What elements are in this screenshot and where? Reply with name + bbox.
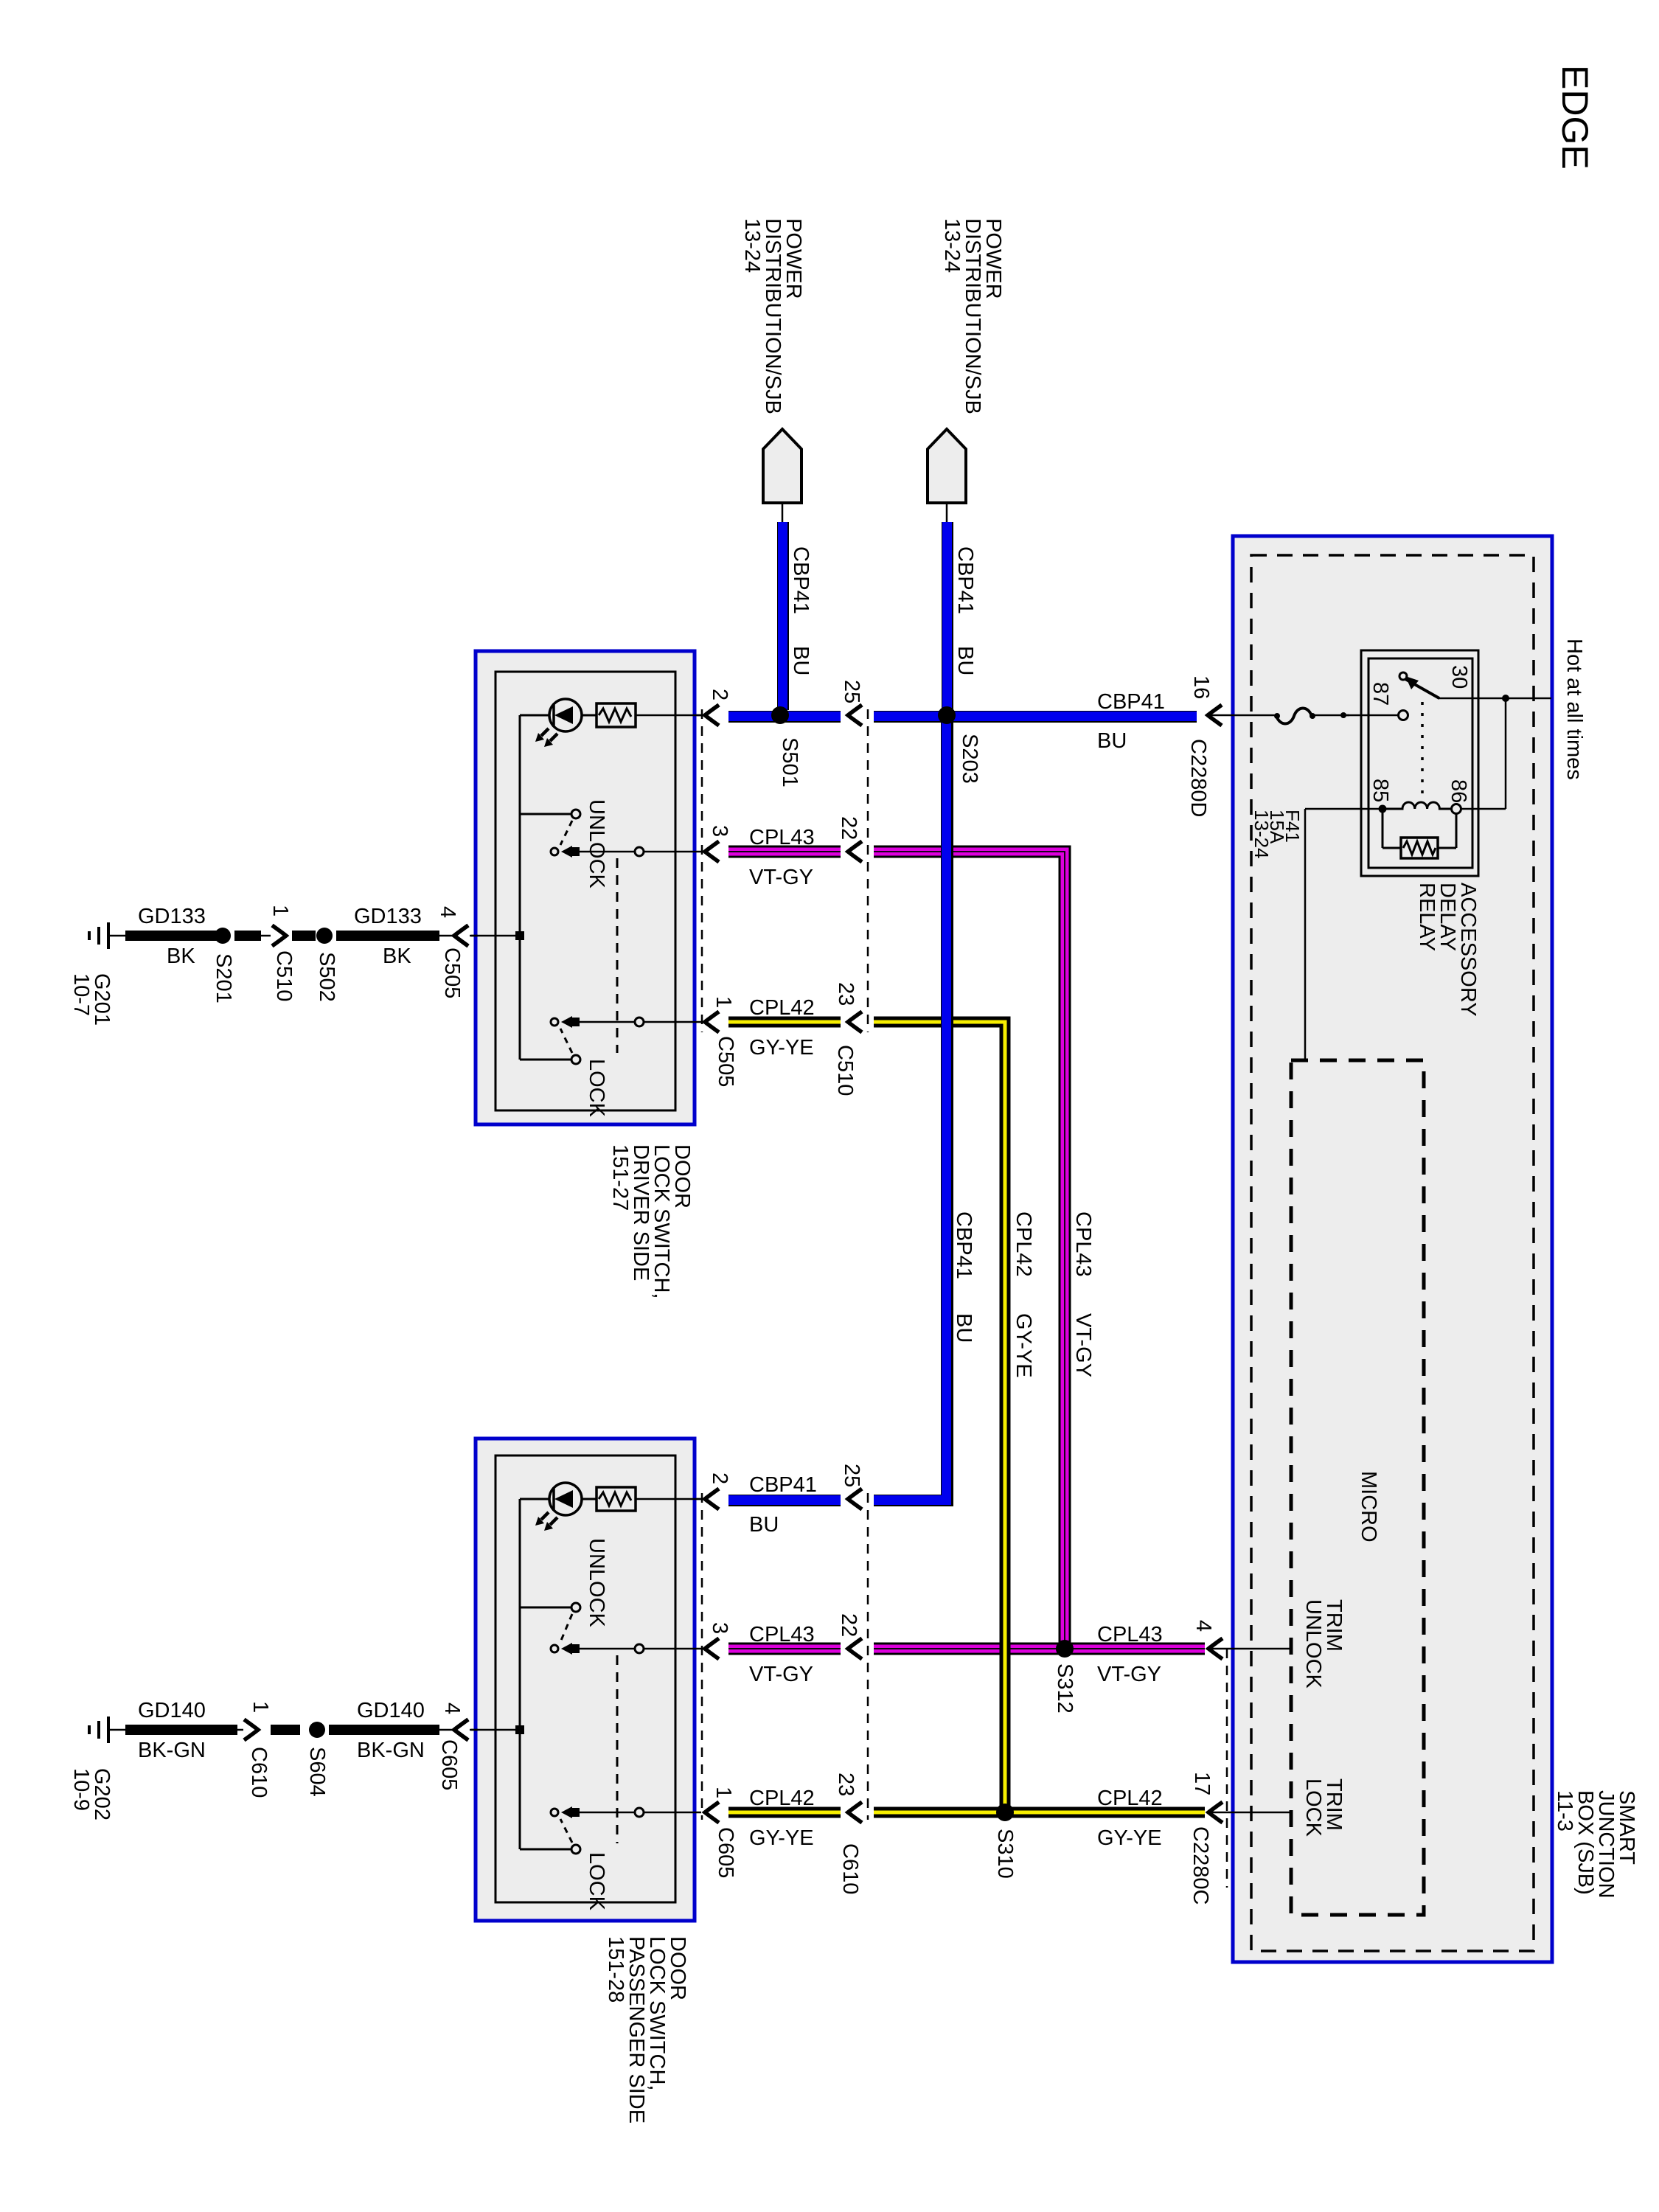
power distribution off-page connector 1 [763,429,801,503]
wire CBP41 BU passenger segment 1 [728,1495,841,1506]
svg-text:UNLOCK: UNLOCK [585,799,608,889]
MICRO dashed box [1291,1060,1424,1915]
connector 22 arrow C610 (passenger) [848,1638,862,1659]
pin 4 connector arrow C2280 [1208,1638,1222,1659]
svg-text:C605: C605 [437,1739,461,1790]
junction on fuse wire [1340,712,1346,718]
resistor of lamp (passenger) [597,1487,636,1511]
lead into driver box [470,935,478,937]
lead into passenger box [470,1729,478,1731]
svg-text:C2280D: C2280D [1186,739,1210,817]
svg-text:22: 22 [837,816,860,840]
svg-text:GD133: GD133 [138,905,206,928]
stub before S604 [271,1725,300,1735]
ground G201 symbol [107,922,110,949]
svg-text:S604: S604 [305,1747,329,1797]
resistor left leg v [1382,809,1384,848]
C505 dashed connector line [701,709,703,1032]
switch common wire (driver) [519,715,521,1060]
svg-text:BU: BU [953,646,977,675]
mechanical link dashed (passenger) [616,1655,619,1843]
svg-text:1: 1 [248,1701,272,1713]
relay pin 87 contact [1399,711,1408,720]
svg-text:87: 87 [1368,682,1392,706]
splice S312 [1056,1640,1074,1658]
C610 dashed connector line [867,1493,869,1820]
svg-text:30: 30 [1447,665,1471,689]
resistor of lamp (driver) [597,703,636,727]
svg-text:23: 23 [834,1773,858,1796]
wire CBP41 BU from connector 2 [942,522,953,710]
pin 3 connector arrow (driver) [705,841,719,862]
svg-text:CBP41: CBP41 [953,546,977,614]
svg-text:Hot at all times: Hot at all times [1562,639,1586,780]
pin 1 connector arrow (driver) [705,1012,719,1032]
svg-text:BK-GN: BK-GN [138,1739,206,1762]
splice S501 [771,706,789,724]
pin 4 wire (driver) [471,935,520,937]
lead from connector 1 [782,503,784,522]
wire CPL42 GY-YE driver segment 2 with corner [874,1022,1005,1809]
junction on pin 30 feed [1502,695,1509,702]
wire to pin 86 [1456,808,1506,810]
pin 2 connector arrow (passenger) [705,1489,719,1509]
wire relay pin 85 to MICRO, vertical [1304,809,1307,1060]
LOCK switch (passenger) [520,1848,571,1851]
connector 22 arrow C510 (driver) [848,841,862,862]
pin 4 connector arrow (driver) [454,925,468,946]
svg-text:86: 86 [1447,779,1470,803]
splice S203 [938,706,956,724]
svg-text:BU: BU [749,1513,779,1537]
resistor right leg h [1438,847,1456,849]
wire CBP41 BU long vertical [941,721,953,1506]
stub before S502 [292,931,316,941]
svg-text:23: 23 [834,982,858,1006]
svg-text:S502: S502 [315,952,338,1002]
svg-text:CPL42: CPL42 [1097,1787,1163,1810]
in-line connector 1 C610 arrow [244,1719,258,1740]
svg-text:C510: C510 [272,950,296,1001]
svg-text:4: 4 [436,906,459,918]
resistor right leg v [1455,814,1458,848]
svg-text:CPL43: CPL43 [1097,1623,1163,1646]
svg-text:CBP41: CBP41 [749,1473,817,1497]
svg-text:C505: C505 [714,1036,737,1087]
door lock switch box (passenger) outer blue frame [476,1439,695,1921]
connector 25 arrow C510 (driver) [848,705,862,726]
mechanical link dashed (driver) [616,858,619,1053]
relay coil [1379,805,1387,813]
stub pin 2 passenger [695,1498,704,1500]
wire GD140 BK-GN segment 1 [125,1725,237,1735]
svg-text:UNLOCK: UNLOCK [585,1538,608,1628]
svg-text:1: 1 [712,1787,735,1798]
relay pin 30 feed wire (Hot at all times) [1438,698,1551,700]
splice S502 [316,928,333,944]
wire CPL42 GY-YE driver segment 1 [728,1017,841,1028]
svg-text:C610: C610 [838,1843,862,1894]
stub after S201 [234,931,261,941]
ground G202 symbol [107,1717,110,1743]
switch common wire (passenger) [519,1499,521,1849]
power distribution off-page connector 2 [928,429,966,503]
svg-text:CBP41: CBP41 [952,1211,975,1279]
wire CPL42 GY-YE passenger segment 1 [728,1807,841,1818]
svg-text:CPL43: CPL43 [749,1623,815,1646]
svg-text:4: 4 [440,1703,464,1714]
svg-text:S501: S501 [778,737,801,787]
door lock switch (passenger) inner frame [495,1455,675,1902]
svg-text:LOCK: LOCK [585,1059,608,1118]
svg-text:C610: C610 [247,1747,271,1798]
wire GD133 BK segment 1 [125,931,218,941]
relay inner box [1368,658,1472,868]
svg-text:1: 1 [268,905,292,917]
pin 4 connector arrow (passenger) [454,1719,468,1740]
wire relay pin 85 to MICRO, horizontal [1305,808,1382,810]
svg-text:3: 3 [708,825,731,837]
svg-text:EDGE: EDGE [1554,65,1596,170]
svg-text:4: 4 [1192,1620,1215,1632]
in-line connector 1 C510 arrow [272,925,286,946]
svg-text:BK: BK [383,945,411,968]
svg-text:1: 1 [712,996,735,1008]
accessory delay relay U1 outer box [1361,650,1478,876]
svg-text:BU: BU [1097,729,1127,753]
wire CPL43 VT-GY passenger segment 2 [874,1643,1205,1655]
svg-text:CPL42: CPL42 [749,996,815,1020]
svg-text:C510: C510 [833,1045,857,1096]
svg-text:S312: S312 [1053,1663,1077,1714]
svg-text:CPL42: CPL42 [749,1787,815,1810]
ground stem [108,935,127,937]
svg-text:LOCK: LOCK [585,1852,608,1911]
svg-text:GY-YE: GY-YE [1012,1313,1035,1378]
pin 2 connector arrow (driver) [705,705,719,726]
wire fuse to pin 87 [1343,714,1398,717]
svg-text:S310: S310 [993,1829,1017,1879]
connector 23 arrow C510 (driver) [848,1012,862,1032]
indicator lamp (driver) [520,714,549,717]
svg-text:CBP41: CBP41 [1097,690,1165,714]
TRIM LOCK pin wire [1211,1812,1291,1814]
svg-text:3: 3 [708,1622,731,1634]
C2280C connector dashed line [1226,1649,1228,1888]
svg-text:VT-GY: VT-GY [749,1663,813,1686]
wire CBP41 BU passenger segment 2 [874,1495,953,1506]
connector 23 arrow C610 (passenger) [848,1802,862,1823]
svg-text:2: 2 [708,1472,731,1484]
relay actuator dotted line [1421,702,1424,798]
wire CBP41 BU corner blue fill [942,721,951,1505]
svg-text:CPL43: CPL43 [749,826,815,849]
svg-text:VT-GY: VT-GY [749,866,813,889]
svg-text:GY-YE: GY-YE [749,1826,814,1850]
svg-text:17: 17 [1190,1772,1214,1795]
splice S604 [309,1722,325,1738]
UNLOCK switch (passenger) [520,1607,571,1609]
svg-text:16: 16 [1189,675,1213,699]
TRIM UNLOCK pin wire [1211,1648,1291,1650]
pin 17 connector arrow C2280C [1208,1802,1222,1823]
svg-text:BU: BU [789,646,813,675]
svg-text:MICRO: MICRO [1357,1471,1380,1543]
svg-text:85: 85 [1368,779,1392,802]
svg-text:GD133: GD133 [354,905,422,928]
C510 dashed connector line [867,709,869,1032]
pin 1 connector arrow (passenger) [705,1802,719,1823]
connector 4 C605 arrow (passenger chain) [454,1719,468,1740]
wire CPL42 GY-YE passenger segment 2 [874,1807,1205,1818]
wire junction down to coil [1505,698,1507,809]
lead from connector 2 [946,503,948,522]
wire CPL43 VT-GY driver segment 1 [728,846,841,858]
svg-text:GD140: GD140 [138,1699,206,1722]
wire CPL43 VT-GY driver segment 2 with corner [874,852,1065,1646]
svg-text:BK: BK [167,945,195,968]
relay resistor [1401,838,1438,858]
svg-text:22: 22 [837,1613,860,1637]
svg-text:C605: C605 [714,1827,737,1878]
svg-text:C505: C505 [440,947,464,998]
svg-text:BU: BU [952,1313,975,1343]
LOCK switch (driver) [520,1059,571,1061]
pin 3 connector arrow (passenger) [705,1638,719,1659]
SJB inner dashed border [1251,555,1534,1951]
UNLOCK switch (driver) [520,813,571,815]
svg-text:GY-YE: GY-YE [1097,1826,1162,1850]
svg-text:BK-GN: BK-GN [357,1739,425,1762]
svg-text:VT-GY: VT-GY [1097,1663,1161,1686]
svg-text:CPL42: CPL42 [1012,1211,1035,1277]
svg-text:2: 2 [708,689,731,700]
fuse F41 [1276,709,1312,724]
splice S310 [996,1804,1014,1821]
wire fuse to junction [1312,714,1349,717]
svg-text:C2280C: C2280C [1189,1826,1212,1905]
door lock switch (driver) inner frame [495,672,675,1110]
wire CBP41 BU from connector 1 [777,522,789,710]
svg-text:VT-GY: VT-GY [1071,1313,1095,1377]
wire CBP41 BU run segment 2 [874,711,1197,723]
svg-text:GD140: GD140 [357,1699,425,1722]
door lock switch box (driver) outer blue frame [476,651,695,1124]
svg-text:25: 25 [840,1464,863,1487]
C605 dashed connector line [701,1493,703,1820]
pin 4 wire (passenger) [471,1729,520,1731]
pin 16 connector arrow C2280D [1208,705,1222,726]
relay switch arm [1399,672,1407,680]
svg-text:CPL43: CPL43 [1071,1211,1095,1277]
connector 25 arrow C610 (passenger) [848,1489,862,1509]
resistor left leg h [1382,847,1401,849]
svg-text:25: 25 [840,680,863,703]
svg-text:GY-YE: GY-YE [749,1036,814,1060]
thin link to C510 arrow [261,935,271,937]
stub pin 2 driver [695,714,704,717]
connector 4 C505 arrow (driver chain) [454,925,468,946]
wire CPL43 VT-GY passenger segment 1 [728,1643,841,1655]
smart junction box (SJB) outer blue frame [1233,536,1552,1962]
wire GD140 BK-GN segment 2 [329,1725,439,1735]
svg-text:S203: S203 [958,734,981,784]
svg-text:CBP41: CBP41 [789,546,813,614]
indicator lamp (passenger) [520,1498,549,1500]
svg-text:S201: S201 [212,953,235,1004]
svg-text:TRIMLOCK: TRIMLOCK [1301,1778,1346,1837]
wire C2280D to fuse [1211,714,1275,717]
splice S201 [215,928,231,944]
wire GD133 BK segment 2 [336,931,439,941]
ground stem 2 [108,1729,127,1731]
wire CBP41 BU driver run segment 1 [728,711,841,723]
